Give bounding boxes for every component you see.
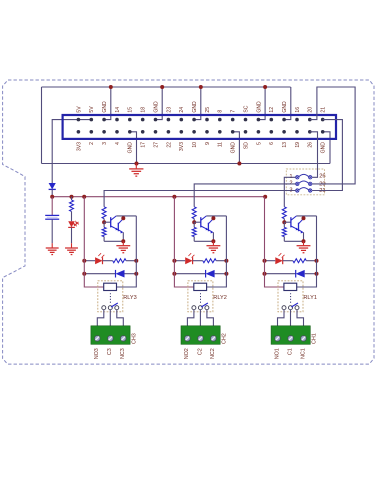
terminal screw ch1 [275, 336, 281, 342]
pin 2 top row [77, 118, 81, 122]
junction VCC rail [50, 195, 54, 199]
capacitor C1 [45, 214, 59, 216]
wire jumper row to channel 3 input [104, 191, 295, 207]
junction VCC rail [82, 195, 86, 199]
ground under capacitor [51, 243, 53, 247]
wire emitter to pulldown ch1 [284, 240, 303, 242]
pin 31 bottom row [270, 130, 274, 134]
relay RLY2 dashed box [188, 281, 213, 312]
jumper row 1 right pin [309, 176, 312, 179]
wire collector ch1 [297, 215, 317, 217]
svg-text:18: 18 [141, 107, 147, 113]
pin 35 bottom row [295, 130, 299, 134]
wire VCC drop ch2 [174, 197, 194, 287]
node base ch1 [282, 220, 286, 224]
relay RLY3 link [109, 293, 111, 303]
svg-text:19: 19 [295, 142, 301, 148]
wire contact C ch1 [290, 310, 292, 326]
pin 28 top row [244, 118, 248, 122]
terminal block CH2 [181, 326, 220, 345]
svg-text:16: 16 [295, 107, 301, 113]
wire base ch2 [194, 221, 201, 223]
wire contact C ch3 [109, 310, 111, 326]
node diode row left ch1 [263, 272, 267, 276]
svg-text:24: 24 [179, 107, 185, 113]
svg-text:21: 21 [321, 107, 327, 113]
pin 6 top row [102, 118, 106, 122]
wire collector ch3 [116, 215, 136, 217]
pin 14 top row [154, 118, 158, 122]
jumper row 3 left pin [296, 189, 299, 192]
svg-text:GND: GND [321, 142, 327, 154]
relay RLY1 link [290, 293, 292, 303]
wire VCC to LED ch2 [174, 260, 185, 262]
resistor R pulldown ch3 [103, 222, 105, 227]
transistor Q2 darlington [201, 216, 214, 234]
relay RLY1 coil [284, 283, 297, 290]
svg-text:RLY2: RLY2 [213, 295, 227, 301]
relay RLY2 coil [194, 283, 207, 290]
svg-text:3: 3 [102, 142, 108, 145]
ground under transistor ch2 [212, 241, 214, 245]
wire base ch3 [104, 221, 111, 223]
wire collector drop to coil ch2 [207, 216, 227, 287]
wire GND tap pin30 [258, 87, 265, 120]
LED indicator ch1 [275, 257, 282, 264]
node diode row left ch2 [172, 272, 176, 276]
relay RLY1 switch arm [291, 303, 298, 307]
terminal block CH1 [271, 326, 310, 345]
svg-text:10: 10 [192, 142, 198, 148]
resistor R base ch1 [282, 207, 286, 219]
svg-text:26: 26 [308, 142, 314, 148]
jumper block J2 dashed box [286, 169, 324, 195]
wire resistor to collector ch1 [306, 260, 316, 262]
relay RLY2 switch arm [201, 303, 208, 307]
resistor R series LED ch3 [113, 259, 126, 263]
relay RLY3 coil [104, 283, 117, 290]
wire resistor to base node ch3 [103, 219, 105, 223]
board outline (dashed PCB edge) [3, 80, 374, 364]
wire VCC to LED ch3 [84, 260, 95, 262]
svg-text:CH1: CH1 [312, 333, 318, 344]
wire GND tap pin6 [104, 87, 111, 120]
pin 36 top row [295, 118, 299, 122]
wire capacitor to ground [51, 219, 53, 243]
resistor R series LED ch2 [203, 259, 216, 263]
resistor R base ch3 [102, 207, 106, 219]
resistor R pulldown ch1 [283, 222, 285, 227]
pin 32 top row [270, 118, 274, 122]
wire GND to pin39 [323, 132, 330, 164]
pin 21 bottom row [205, 130, 209, 134]
junction GND rail pin14 [160, 85, 164, 89]
pin 22 top row [205, 118, 209, 122]
wire to flyback diode ch1 [265, 273, 296, 275]
svg-text:4: 4 [115, 142, 121, 145]
node emitter ch1 [302, 239, 306, 243]
junction VCC rail [172, 195, 176, 199]
wire GND tap pin25 [233, 132, 240, 164]
jumper row 3 right pin [309, 189, 312, 192]
wire emitter ch1 [303, 232, 305, 241]
wire LED to resistor ch1 [283, 260, 293, 262]
svg-text:RLY3: RLY3 [123, 295, 137, 301]
svg-text:SC: SC [243, 105, 249, 112]
pin 33 bottom row [282, 130, 286, 134]
wire VCC to resistor R1 [71, 197, 73, 200]
wire base ch1 [284, 221, 291, 223]
terminal screw ch2 [211, 336, 217, 342]
svg-text:13: 13 [282, 142, 288, 148]
wire GND tap pin14 [156, 87, 163, 120]
terminal screw ch3 [95, 336, 101, 342]
wire contact NC ch1 [297, 310, 304, 326]
wire contact NC ch2 [207, 310, 214, 326]
jumper row 2 right pin [309, 182, 312, 185]
svg-text:5V: 5V [76, 106, 82, 113]
node emitter ch3 [121, 239, 125, 243]
pin 15 bottom row [167, 130, 171, 134]
pin 12 top row [141, 118, 145, 122]
svg-text:5: 5 [256, 142, 262, 145]
node LED row left ch1 [263, 259, 267, 263]
diode flyback ch2 [205, 270, 207, 278]
node LED row right ch2 [224, 259, 228, 263]
wire GPIO21 pin40 to jumper row3 [312, 120, 342, 191]
pin 29 bottom row [257, 130, 261, 134]
wire resistor to LED [71, 211, 73, 221]
wire VCC drop ch3 [84, 197, 104, 287]
pin 25 bottom row [231, 130, 235, 134]
pin 39 bottom row [321, 130, 325, 134]
svg-text:GND: GND [231, 142, 237, 154]
svg-text:3V3: 3V3 [76, 142, 82, 151]
wire collector drop to coil ch1 [297, 216, 317, 287]
terminal screw ch3 [108, 336, 114, 342]
svg-text:GND: GND [153, 101, 159, 113]
pin 40 top row [321, 118, 325, 122]
svg-text:CH2: CH2 [221, 333, 227, 344]
svg-text:3V3: 3V3 [179, 142, 185, 151]
LED D2 power indicator [68, 221, 75, 227]
svg-text:15: 15 [128, 107, 134, 113]
relay RLY1 contacts [282, 306, 286, 310]
wire emitter ch2 [212, 232, 214, 241]
svg-text:17: 17 [141, 142, 147, 148]
pin 37 bottom row [308, 130, 312, 134]
terminal screw ch1 [301, 336, 307, 342]
svg-text:22: 22 [166, 142, 172, 148]
wire resistor to collector ch2 [216, 260, 226, 262]
svg-text:12: 12 [269, 107, 275, 113]
relay RLY3 contacts [102, 306, 106, 310]
jumper row 1 left pin [296, 176, 299, 179]
wire LED to resistor ch3 [103, 260, 113, 262]
pin 18 top row [180, 118, 184, 122]
LED indicator ch2 [185, 257, 192, 264]
svg-text:23: 23 [166, 107, 172, 113]
wire collector drop to coil ch3 [117, 216, 137, 287]
svg-text:GND: GND [102, 101, 108, 113]
relay RLY3 dashed box [98, 281, 123, 312]
jumper row 3 cap arc [299, 188, 308, 190]
wire VCC to capacitor C1 [51, 197, 53, 216]
svg-text:25: 25 [205, 107, 211, 113]
pin 9 bottom row [128, 130, 132, 134]
pin 38 top row [308, 118, 312, 122]
wire jumper row to channel 2 input [194, 184, 295, 207]
svg-text:7: 7 [231, 110, 237, 113]
svg-text:27: 27 [153, 142, 159, 148]
junction GND rail pin25 [237, 162, 241, 166]
jumper row 2 cap arc [299, 181, 308, 183]
svg-text:RLY1: RLY1 [303, 295, 317, 301]
node base ch2 [192, 220, 196, 224]
transistor Q3 darlington [111, 216, 124, 234]
svg-text:14: 14 [115, 107, 121, 113]
svg-text:5V: 5V [89, 106, 95, 113]
transistor Q1 darlington [291, 216, 304, 234]
wire to flyback diode ch3 [84, 273, 115, 275]
svg-text:11: 11 [218, 142, 224, 147]
pin 27 bottom row [244, 130, 248, 134]
pin 3 bottom row [90, 130, 94, 134]
wire contact NC ch3 [117, 310, 124, 326]
pin 20 top row [192, 118, 196, 122]
wire collector ch2 [206, 215, 226, 217]
terminal screw ch3 [121, 336, 127, 342]
wire LED to ground [71, 227, 73, 243]
relay RLY1 dashed box [278, 281, 303, 312]
wire contact NO ch1 [278, 310, 285, 326]
wire 5V from header pins 2,4 [52, 120, 91, 183]
svg-text:26: 26 [319, 173, 325, 179]
ground under transistor ch1 [303, 241, 305, 245]
svg-text:C3: C3 [107, 348, 113, 355]
relay RLY3 switch arm [111, 303, 118, 307]
diode D1 series 5V [49, 183, 56, 189]
junction GND rail pin6 [109, 85, 113, 89]
resistor R series LED ch1 [293, 259, 306, 263]
node diode row right ch3 [134, 272, 138, 276]
pin 4 top row [90, 118, 94, 122]
terminal block CH3 [91, 326, 130, 345]
pin 34 top row [282, 118, 286, 122]
relay RLY2 link [200, 293, 202, 303]
junction VCC rail [70, 195, 74, 199]
wire emitter to pulldown ch2 [194, 240, 213, 242]
wire VCC to LED ch1 [265, 260, 276, 262]
svg-text:6: 6 [269, 142, 275, 145]
pin 17 bottom row [180, 130, 184, 134]
svg-text:NC3: NC3 [120, 348, 126, 359]
pin 23 bottom row [218, 130, 222, 134]
ground symbol under header [135, 164, 137, 169]
wire GND top rail [42, 86, 291, 88]
wire emitter ch3 [122, 232, 124, 241]
pin 13 bottom row [154, 130, 158, 134]
jumper row 1 cap arc [299, 174, 308, 176]
resistor R1 power led [70, 200, 74, 211]
svg-text:GND: GND [282, 101, 288, 113]
wire VCC relay rail [52, 196, 265, 198]
jumper row 2 left pin [296, 182, 299, 185]
node LED row left ch2 [172, 259, 176, 263]
node diode row right ch2 [224, 272, 228, 276]
wire resistor to base node ch2 [193, 219, 195, 223]
node collector ch3 [121, 216, 125, 220]
pin 5 bottom row [102, 130, 106, 134]
svg-text:C2: C2 [197, 348, 203, 355]
pin 1 bottom row [77, 130, 81, 134]
wire contact C ch2 [199, 310, 201, 326]
pin 24 top row [218, 118, 222, 122]
svg-text:NO1: NO1 [274, 348, 280, 359]
pin 16 top row [167, 118, 171, 122]
pin 11 bottom row [141, 130, 145, 134]
svg-text:GND: GND [192, 101, 198, 113]
wire GND left drop [41, 87, 43, 164]
junction VCC rail [263, 195, 267, 199]
wire to flyback diode ch2 [174, 273, 205, 275]
diode flyback ch3 [115, 270, 117, 278]
wire GND tap pin20 [194, 87, 201, 120]
svg-text:20: 20 [308, 107, 314, 113]
wire jumper row to channel 1 input [284, 177, 295, 207]
wire VCC drop ch1 [265, 197, 285, 287]
node collector ch1 [302, 216, 306, 220]
ground under power LED [71, 243, 73, 247]
junction GND rail pin20 [199, 85, 203, 89]
svg-text:9: 9 [205, 142, 211, 145]
svg-text:NO3: NO3 [94, 348, 100, 359]
wire GPIO20 pin38 to jumper row2 [310, 87, 355, 184]
svg-text:8: 8 [218, 110, 224, 113]
wire GND bottom rail [42, 163, 331, 165]
connector J1 40-pin header outline [63, 115, 336, 139]
svg-text:NC2: NC2 [210, 348, 216, 359]
wire diode to VCC rail [51, 189, 53, 196]
pin 19 bottom row [192, 130, 196, 134]
terminal screw ch2 [198, 336, 204, 342]
wire LED to resistor ch2 [193, 260, 203, 262]
node emitter ch2 [211, 239, 215, 243]
node LED row right ch1 [315, 259, 319, 263]
terminal screw ch2 [185, 336, 191, 342]
pin 30 top row [257, 118, 261, 122]
svg-text:C1: C1 [287, 348, 293, 355]
ground under transistor ch3 [122, 241, 124, 245]
svg-text:NC1: NC1 [300, 348, 306, 359]
pin 8 top row [115, 118, 119, 122]
wire GND tap pin34 [284, 87, 291, 120]
pin 26 top row [231, 118, 235, 122]
wire contact NO ch2 [187, 310, 194, 326]
svg-text:NO2: NO2 [184, 348, 190, 359]
pin 7 bottom row [115, 130, 119, 134]
junction GND rail pin30 [263, 85, 267, 89]
node LED row right ch3 [134, 259, 138, 263]
svg-text:GND: GND [128, 142, 134, 154]
wire GPIO26 pin37 to jumper row1 [310, 132, 318, 178]
diode flyback ch1 [295, 270, 297, 278]
resistor R base ch2 [192, 207, 196, 219]
wire resistor to collector ch3 [126, 260, 136, 262]
terminal screw ch1 [288, 336, 294, 342]
node diode row left ch3 [82, 272, 86, 276]
LED indicator ch3 [95, 257, 102, 264]
pin 10 top row [128, 118, 132, 122]
wire emitter to pulldown ch3 [104, 240, 123, 242]
svg-text:CH3: CH3 [131, 333, 137, 344]
node base ch3 [102, 220, 106, 224]
svg-text:GND: GND [256, 101, 262, 113]
junction GND rail pin9 [135, 162, 139, 166]
wire contact NO ch3 [97, 310, 104, 326]
relay RLY2 contacts [192, 306, 196, 310]
wire resistor to base node ch1 [283, 219, 285, 223]
svg-text:2: 2 [89, 142, 95, 145]
resistor R pulldown ch2 [193, 222, 195, 227]
node LED row left ch3 [82, 259, 86, 263]
wire GND tap pin9 [130, 132, 137, 164]
node diode row right ch1 [315, 272, 319, 276]
node collector ch2 [211, 216, 215, 220]
svg-text:SD: SD [243, 142, 249, 149]
